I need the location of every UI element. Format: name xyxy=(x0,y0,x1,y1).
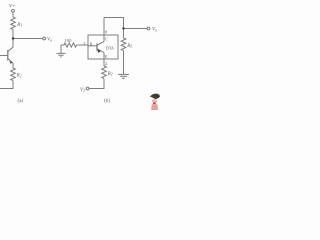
wire emitter xyxy=(97,49,104,53)
wire base xyxy=(88,45,97,47)
wire collector xyxy=(97,42,104,46)
svg-text:100: 100 xyxy=(65,38,73,43)
wire xyxy=(8,39,13,52)
wire xyxy=(8,59,13,68)
resistor R2 (b) xyxy=(102,66,107,78)
transistor Q1 xyxy=(7,50,9,61)
wire xyxy=(124,28,148,30)
node junction (b) xyxy=(122,27,124,29)
transistor Q2 xyxy=(96,44,98,51)
wire xyxy=(77,44,89,46)
wire xyxy=(0,81,13,89)
resistor 100 xyxy=(64,43,76,47)
node Vo terminal (a) xyxy=(43,37,46,40)
transistor Q1 emitter arrow xyxy=(9,61,12,64)
wire xyxy=(123,51,125,74)
resistor R2 xyxy=(11,68,16,80)
svg-text:C: C xyxy=(105,37,108,42)
wire pin 8 xyxy=(103,18,105,42)
IC box U1 xyxy=(88,35,118,59)
wire xyxy=(12,12,14,17)
wire xyxy=(12,30,14,39)
svg-text:2: 2 xyxy=(105,61,107,66)
svg-text:8: 8 xyxy=(105,30,107,35)
node Vo terminal (b) xyxy=(147,27,150,30)
svg-text:R2: R2 xyxy=(16,74,22,79)
wire top rail xyxy=(104,18,124,29)
svg-text:DTA: DTA xyxy=(106,46,114,51)
svg-text:Vo: Vo xyxy=(47,38,52,43)
svg-text:R1: R1 xyxy=(16,23,22,28)
wire pin E xyxy=(103,53,105,66)
svg-text:E: E xyxy=(105,54,108,59)
wire xyxy=(0,55,8,57)
wire xyxy=(61,44,64,46)
transistor Q2 emitter arrow xyxy=(97,50,101,53)
svg-text:Vo: Vo xyxy=(152,28,157,33)
ground G1 xyxy=(57,45,66,57)
wire xyxy=(123,29,125,39)
resistor RL xyxy=(121,38,126,50)
svg-text:3: 3 xyxy=(83,41,85,46)
node V+ terminal xyxy=(12,9,15,12)
resistor R1 xyxy=(11,17,16,30)
svg-text:V+: V+ xyxy=(9,4,16,10)
svg-text:(b): (b) xyxy=(104,97,110,104)
svg-text:B: B xyxy=(90,42,93,47)
svg-text:R2: R2 xyxy=(107,72,113,77)
svg-text:RL: RL xyxy=(126,44,132,49)
svg-text:(a): (a) xyxy=(18,97,24,104)
node V2 terminal xyxy=(86,87,89,90)
wire xyxy=(89,79,104,89)
node collector junction (a) xyxy=(12,37,14,39)
ground G2 xyxy=(118,74,129,78)
wire xyxy=(13,38,43,40)
svg-text:V2: V2 xyxy=(80,88,85,93)
mascot watermark xyxy=(150,94,160,110)
